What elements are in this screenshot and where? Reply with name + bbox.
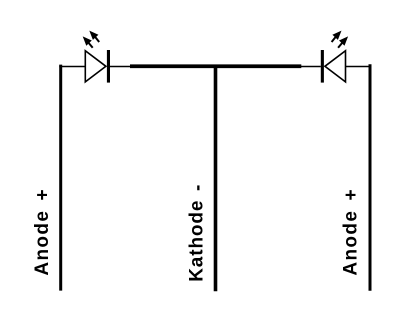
svg-text:Kathode: Kathode bbox=[187, 200, 208, 282]
svg-text:+: + bbox=[32, 189, 53, 200]
LED D1 light arrow 2 (upper, pointing up-left) bbox=[89, 31, 99, 42]
svg-text:+: + bbox=[341, 189, 362, 200]
wire: left LED cathode lead (thin) bbox=[110, 66, 131, 68]
wire: middle cathode vertical wire bbox=[214, 66, 218, 291]
LED D1 triangle (left LED, anode left, pointing right) bbox=[85, 51, 106, 82]
LED D2 cathode bar bbox=[321, 50, 324, 83]
wire: right LED anode lead (thin) bbox=[346, 66, 372, 68]
wire: right LED cathode lead (thin) bbox=[300, 66, 321, 68]
LED D1 cathode bar bbox=[107, 50, 110, 83]
wire: left anode vertical wire bbox=[59, 65, 62, 291]
LED D1 light arrow 1 (lower, pointing up-left) bbox=[83, 36, 93, 47]
LED D2 triangle (right LED, anode right, pointing left) bbox=[325, 51, 346, 82]
svg-text:Anode: Anode bbox=[32, 210, 53, 276]
wire: right anode vertical wire bbox=[369, 64, 372, 290]
wire: left LED anode lead (thin) bbox=[59, 66, 85, 68]
svg-text:-: - bbox=[188, 185, 209, 191]
LED D2 light arrow 2 (lower, pointing up-right) bbox=[338, 36, 348, 47]
wire: middle horizontal cathode bus bbox=[130, 64, 301, 68]
svg-text:Anode: Anode bbox=[341, 210, 362, 276]
LED D2 light arrow 1 (upper, pointing up-right) bbox=[332, 31, 342, 42]
